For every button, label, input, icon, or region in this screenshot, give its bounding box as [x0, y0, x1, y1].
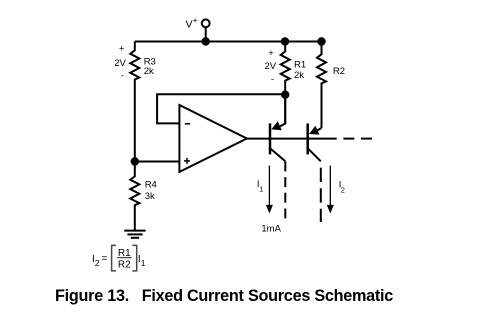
svg-text:+: +: [119, 44, 125, 55]
svg-text:1: 1: [141, 258, 146, 268]
svg-text:1: 1: [259, 184, 263, 193]
wire noninverting input: [135, 161, 180, 163]
transistor Q1: [270, 95, 285, 162]
svg-text:-: -: [121, 70, 124, 81]
node feedback R1 junction: [281, 91, 289, 99]
wire Q1 collector dashed: [284, 161, 286, 218]
svg-text:R4: R4: [145, 180, 157, 191]
label 2V left: [114, 44, 126, 82]
svg-text:2k: 2k: [294, 70, 304, 81]
label op-amp minus: [185, 123, 190, 125]
wire base dashed extension: [343, 138, 372, 140]
label I2: [339, 179, 345, 194]
svg-text:R2: R2: [118, 260, 131, 271]
resistor R1: [281, 42, 290, 124]
caption Figure 13: [55, 288, 393, 304]
svg-text:=: =: [102, 254, 108, 265]
svg-text:V: V: [186, 19, 193, 31]
equation I2 = [R1/R2] I1: [92, 245, 146, 271]
svg-text:2: 2: [341, 185, 345, 194]
resistor R4: [130, 162, 139, 231]
svg-text:1mA: 1mA: [261, 224, 281, 235]
transistor Q2: [308, 123, 322, 161]
svg-text:R1: R1: [294, 59, 306, 70]
node noninverting junction: [131, 157, 139, 165]
ground: [124, 231, 145, 238]
label I1: [257, 179, 263, 193]
label R3 2k: [144, 57, 156, 78]
wire Q2 collector dashed: [320, 168, 322, 222]
terminal V+: [202, 19, 210, 27]
node V+ junction: [202, 37, 210, 45]
wire top supply rail: [135, 41, 322, 43]
label V+: [186, 16, 198, 31]
svg-text:-: -: [271, 74, 274, 85]
wire feedback loop: [157, 94, 285, 123]
arrow current I1: [266, 166, 273, 214]
node R2 top junction: [317, 37, 325, 45]
svg-text:+: +: [193, 16, 198, 25]
svg-text:+: +: [268, 48, 274, 59]
svg-text:R2: R2: [333, 66, 345, 77]
svg-text:2: 2: [95, 258, 100, 268]
resistor R3: [130, 42, 139, 162]
label R4 3k: [145, 180, 157, 202]
svg-text:2V: 2V: [114, 58, 126, 69]
label 2V right: [264, 48, 276, 85]
arrow current I2: [327, 166, 334, 214]
label R1 2k: [294, 59, 306, 81]
wire V+ stub: [205, 27, 207, 41]
wire op-amp output / base line: [247, 138, 337, 140]
op-amp U1: [179, 105, 247, 172]
svg-text:2V: 2V: [264, 61, 276, 72]
label op-amp plus: [184, 158, 190, 164]
resistor R2: [317, 42, 326, 129]
svg-text:3k: 3k: [145, 191, 155, 202]
node R1 top junction: [281, 37, 289, 45]
svg-text:2k: 2k: [144, 66, 154, 77]
